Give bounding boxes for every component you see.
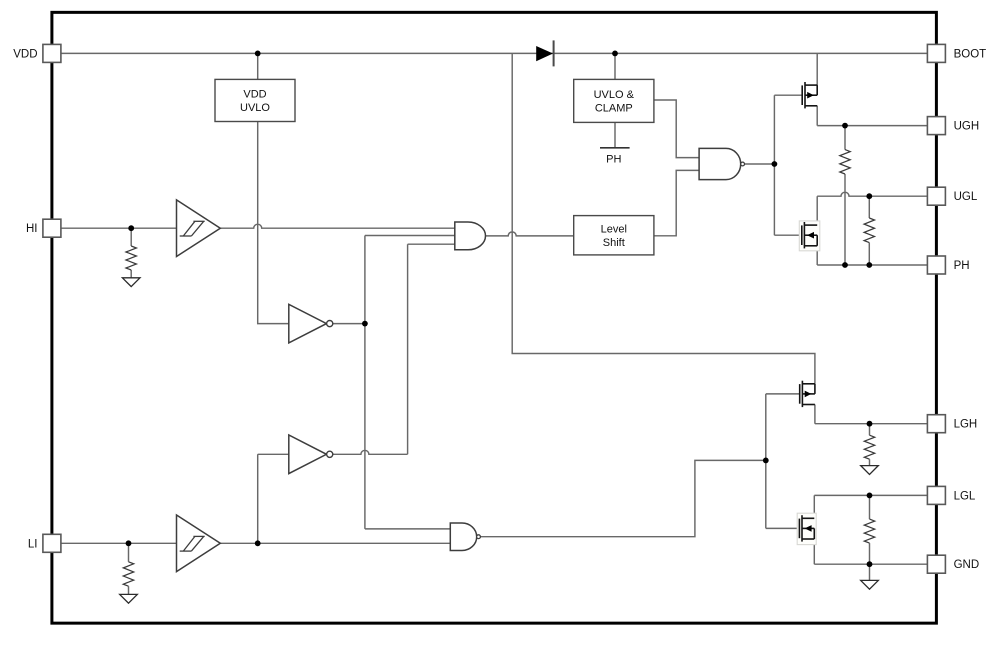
svg-text:UVLO &: UVLO & [594, 89, 635, 101]
svg-text:HI: HI [26, 223, 38, 235]
svg-text:VDD: VDD [13, 48, 37, 60]
svg-text:LI: LI [28, 538, 38, 550]
svg-text:GND: GND [954, 559, 980, 571]
svg-text:LGL: LGL [954, 490, 976, 502]
svg-text:VDD: VDD [243, 89, 266, 101]
svg-text:CLAMP: CLAMP [595, 103, 633, 115]
svg-text:Shift: Shift [603, 237, 625, 249]
svg-text:Level: Level [601, 224, 627, 236]
svg-text:UVLO: UVLO [240, 102, 270, 114]
svg-text:PH: PH [954, 260, 970, 272]
svg-text:BOOT: BOOT [954, 48, 987, 60]
svg-text:UGH: UGH [954, 121, 980, 133]
svg-text:UGL: UGL [954, 191, 978, 203]
svg-text:PH: PH [606, 154, 621, 166]
svg-text:LGH: LGH [954, 419, 978, 431]
